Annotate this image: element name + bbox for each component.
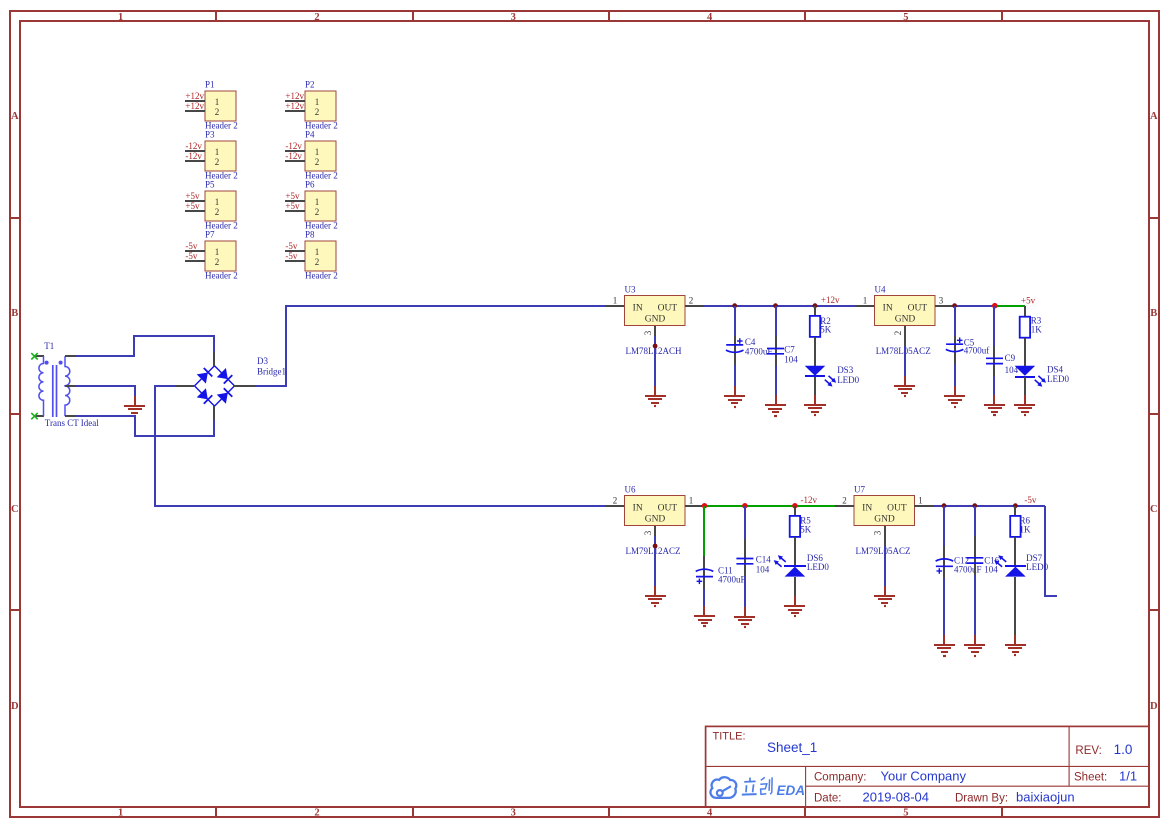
svg-text:2: 2 — [215, 257, 220, 267]
svg-text:P2: P2 — [305, 80, 315, 90]
svg-text:3: 3 — [511, 12, 516, 23]
svg-text:1/1: 1/1 — [1119, 768, 1137, 783]
svg-text:OUT: OUT — [887, 504, 907, 514]
svg-text:104: 104 — [984, 564, 998, 574]
svg-text:Sheet_1: Sheet_1 — [767, 740, 817, 755]
svg-text:4700uF: 4700uF — [954, 564, 982, 574]
svg-text:C14: C14 — [756, 555, 772, 565]
svg-text:5K: 5K — [800, 525, 812, 535]
svg-text:1K: 1K — [1020, 525, 1032, 535]
svg-text:5K: 5K — [820, 325, 832, 335]
svg-text:P6: P6 — [305, 180, 315, 190]
svg-text:1: 1 — [315, 247, 320, 257]
svg-text:+5v: +5v — [285, 201, 300, 211]
svg-text:IN: IN — [883, 304, 893, 314]
svg-text:LED0: LED0 — [1026, 562, 1048, 572]
svg-text:OUT: OUT — [658, 504, 678, 514]
svg-text:baixiaojun: baixiaojun — [1016, 789, 1075, 804]
svg-text:D: D — [1150, 701, 1158, 712]
svg-text:4700uf: 4700uf — [964, 346, 990, 356]
svg-text:GND: GND — [895, 315, 916, 325]
svg-text:OUT: OUT — [908, 304, 928, 314]
svg-text:4700uF: 4700uF — [718, 575, 746, 585]
svg-text:GND: GND — [645, 515, 666, 525]
svg-text:TITLE:: TITLE: — [713, 731, 746, 743]
svg-text:C: C — [11, 504, 19, 515]
svg-text:+5v: +5v — [285, 191, 300, 201]
svg-text:U4: U4 — [875, 285, 886, 295]
svg-text:B: B — [1150, 308, 1157, 319]
svg-text:1: 1 — [215, 247, 220, 257]
svg-text:104: 104 — [756, 564, 770, 574]
svg-text:U7: U7 — [854, 485, 865, 495]
svg-text:1: 1 — [118, 808, 123, 819]
svg-text:2: 2 — [315, 157, 320, 167]
svg-text:D: D — [11, 701, 19, 712]
svg-text:EDA: EDA — [777, 783, 806, 798]
svg-text:LM78L05ACZ: LM78L05ACZ — [876, 346, 931, 356]
svg-text:2: 2 — [613, 496, 618, 506]
svg-text:Drawn By:: Drawn By: — [955, 792, 1008, 804]
svg-text:2: 2 — [314, 12, 319, 23]
svg-text:-12v: -12v — [801, 495, 818, 505]
svg-text:2: 2 — [315, 257, 320, 267]
svg-text:2: 2 — [215, 207, 220, 217]
svg-text:3: 3 — [643, 530, 653, 535]
svg-text:2: 2 — [215, 107, 220, 117]
svg-text:P8: P8 — [305, 230, 315, 240]
svg-text:-5v: -5v — [285, 241, 297, 251]
svg-text:1: 1 — [918, 496, 923, 506]
svg-text:-5v: -5v — [285, 251, 297, 261]
svg-text:+5v: +5v — [1021, 296, 1036, 306]
svg-text:-12v: -12v — [285, 151, 302, 161]
svg-text:3: 3 — [939, 296, 944, 306]
svg-text:2: 2 — [314, 808, 319, 819]
svg-text:LM79L12ACZ: LM79L12ACZ — [626, 546, 681, 556]
svg-text:OUT: OUT — [658, 304, 678, 314]
svg-text:1: 1 — [215, 147, 220, 157]
svg-text:C7: C7 — [784, 345, 795, 355]
svg-text:1: 1 — [315, 147, 320, 157]
svg-text:2: 2 — [689, 296, 694, 306]
svg-text:U3: U3 — [625, 285, 636, 295]
svg-text:GND: GND — [645, 315, 666, 325]
svg-text:P1: P1 — [205, 80, 215, 90]
svg-text:REV:: REV: — [1075, 745, 1101, 757]
svg-text:+12v: +12v — [285, 101, 304, 111]
svg-text:U6: U6 — [625, 485, 636, 495]
svg-text:-12v: -12v — [285, 141, 302, 151]
svg-text:1: 1 — [118, 12, 123, 23]
svg-text:-12v: -12v — [185, 151, 202, 161]
svg-text:3: 3 — [643, 330, 653, 335]
svg-text:Your Company: Your Company — [881, 768, 967, 783]
svg-text:1: 1 — [689, 496, 694, 506]
svg-text:2: 2 — [842, 496, 847, 506]
svg-text:Bridge1: Bridge1 — [257, 367, 286, 377]
svg-text:D3: D3 — [257, 356, 268, 366]
svg-text:LED0: LED0 — [807, 562, 829, 572]
svg-text:2: 2 — [215, 157, 220, 167]
svg-text:P4: P4 — [305, 130, 315, 140]
svg-text:1: 1 — [215, 97, 220, 107]
svg-text:1K: 1K — [1031, 324, 1043, 334]
svg-text:IN: IN — [633, 504, 643, 514]
svg-text:1: 1 — [215, 197, 220, 207]
svg-text:2: 2 — [315, 107, 320, 117]
svg-text:IN: IN — [633, 304, 643, 314]
svg-text:DS3: DS3 — [837, 365, 854, 375]
svg-text:A: A — [1150, 111, 1158, 122]
svg-text:Header 2: Header 2 — [205, 270, 238, 280]
svg-text:+12v: +12v — [185, 91, 204, 101]
svg-text:-12v: -12v — [185, 141, 202, 151]
svg-text:LM79L05ACZ: LM79L05ACZ — [856, 546, 911, 556]
svg-text:3: 3 — [511, 808, 516, 819]
svg-text:Header 2: Header 2 — [305, 270, 338, 280]
svg-text:4: 4 — [707, 12, 713, 23]
svg-text:Company:: Company: — [814, 771, 866, 783]
svg-text:1.0: 1.0 — [1114, 742, 1133, 757]
svg-text:+5v: +5v — [185, 201, 200, 211]
svg-text:2019-08-04: 2019-08-04 — [863, 789, 930, 804]
svg-text:2: 2 — [893, 331, 903, 336]
svg-text:P5: P5 — [205, 180, 215, 190]
svg-text:+12v: +12v — [821, 295, 840, 305]
svg-text:104: 104 — [784, 354, 798, 364]
svg-text:-5v: -5v — [1024, 495, 1036, 505]
svg-text:GND: GND — [874, 515, 895, 525]
svg-text:T1: T1 — [44, 341, 54, 351]
svg-text:DS4: DS4 — [1047, 365, 1064, 375]
svg-text:Sheet:: Sheet: — [1074, 771, 1107, 783]
svg-text:3: 3 — [873, 530, 883, 535]
svg-text:4: 4 — [707, 808, 713, 819]
svg-text:LED0: LED0 — [837, 375, 859, 385]
svg-text:C9: C9 — [1005, 353, 1016, 363]
svg-text:Trans CT Ideal: Trans CT Ideal — [45, 418, 99, 428]
svg-text:1: 1 — [315, 197, 320, 207]
svg-text:C: C — [1150, 504, 1158, 515]
svg-text:+5v: +5v — [185, 191, 200, 201]
svg-text:IN: IN — [862, 504, 872, 514]
svg-text:P7: P7 — [205, 230, 215, 240]
svg-text:5: 5 — [903, 808, 908, 819]
svg-text:-5v: -5v — [185, 251, 197, 261]
svg-text:1: 1 — [863, 296, 868, 306]
svg-text:A: A — [11, 111, 19, 122]
svg-text:B: B — [11, 308, 18, 319]
svg-text:Date:: Date: — [814, 792, 842, 804]
svg-text:LED0: LED0 — [1047, 374, 1069, 384]
svg-text:1: 1 — [315, 97, 320, 107]
svg-text:P3: P3 — [205, 130, 215, 140]
svg-text:+12v: +12v — [285, 91, 304, 101]
svg-text:+12v: +12v — [185, 101, 204, 111]
svg-text:5: 5 — [903, 12, 908, 23]
svg-text:-5v: -5v — [185, 241, 197, 251]
svg-text:2: 2 — [315, 207, 320, 217]
svg-text:1: 1 — [613, 296, 618, 306]
